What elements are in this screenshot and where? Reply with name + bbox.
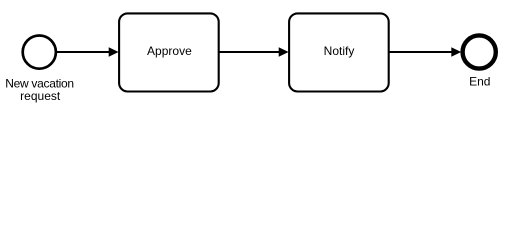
label: End — [469, 75, 490, 89]
wire: sequence flow Notify -> End — [389, 47, 461, 57]
wire: sequence flow start -> Approve — [57, 47, 119, 57]
end event circle (thick border) — [463, 35, 496, 68]
task Approve — [119, 13, 219, 91]
start event circle (New vacation request) — [23, 36, 56, 69]
label: New vacation request — [5, 77, 73, 104]
svg-text:Notify: Notify — [324, 44, 355, 58]
svg-text:Approve: Approve — [147, 44, 192, 58]
task Notify — [289, 13, 389, 91]
svg-text:request: request — [20, 89, 61, 103]
svg-text:End: End — [469, 75, 490, 89]
wire: sequence flow Approve -> Notify — [219, 47, 289, 57]
